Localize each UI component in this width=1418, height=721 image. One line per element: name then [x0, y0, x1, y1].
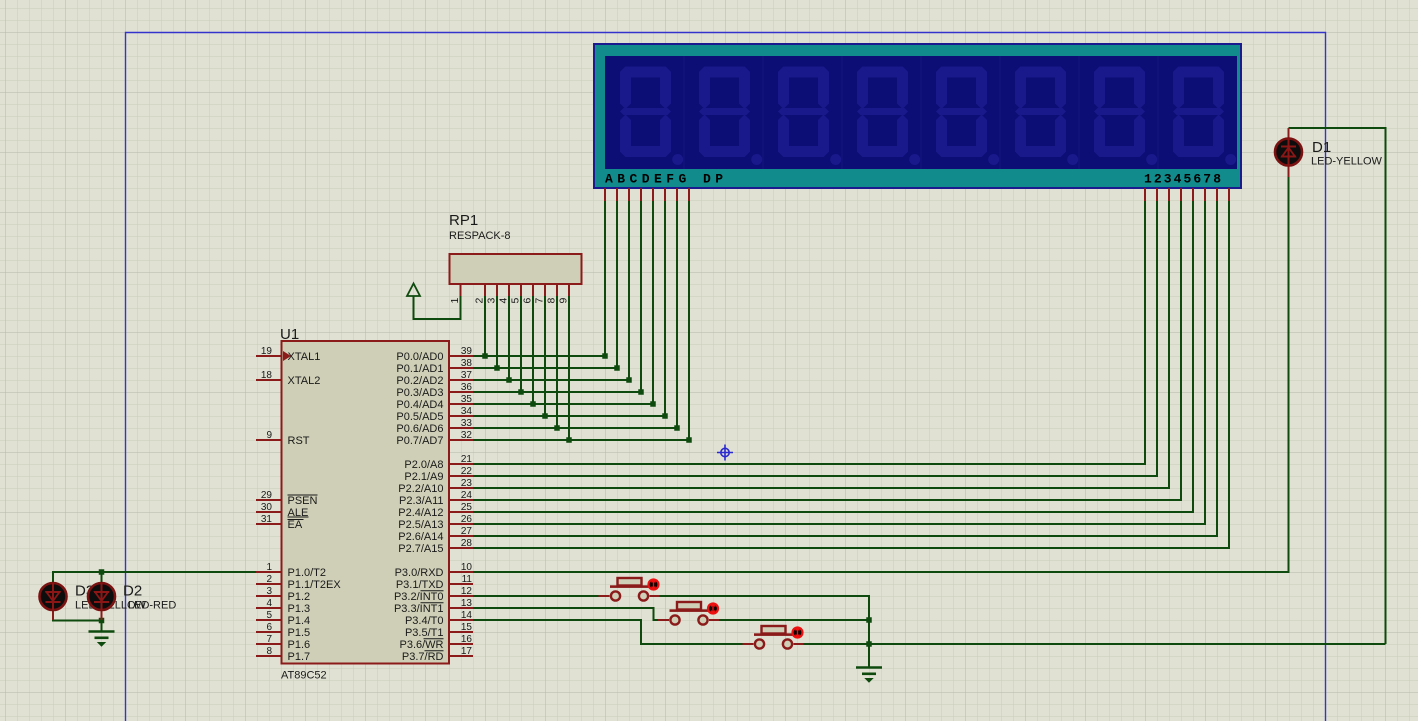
display digit pin 5 [1192, 188, 1194, 201]
junction P0.1/display [614, 365, 620, 371]
wire RESPACK pin1 to VCC arrow [414, 296, 461, 319]
U1 pin 38 (P0.1/AD1) [449, 367, 473, 369]
junction D2 cathode [99, 618, 105, 624]
svg-text:14: 14 [461, 610, 473, 621]
U1 pin 4 (P1.3) [256, 607, 281, 609]
svg-text:P1.2: P1.2 [288, 591, 311, 603]
svg-text:32: 32 [461, 430, 473, 441]
display segment pin C [628, 188, 630, 201]
svg-text:P3.2/INT0: P3.2/INT0 [394, 591, 444, 603]
digit separator [920, 56, 922, 169]
junction P0.7/RP1 [566, 437, 572, 443]
svg-text:U1: U1 [280, 326, 299, 343]
svg-text:P0.2/AD2: P0.2/AD2 [396, 375, 443, 387]
LED D2 [101, 582, 103, 620]
wire D2 D3 cathode bus [53, 611, 102, 632]
U1 pin 21 (P2.0/A8) [449, 463, 473, 465]
U1 pin 18 (XTAL2) [256, 379, 281, 381]
wire P2.7 to digit 8 [473, 201, 1229, 548]
wire display segment E vertical [652, 201, 654, 404]
U1 pin 31 (EA) [256, 523, 281, 525]
svg-text:RP1: RP1 [449, 212, 478, 229]
resistor pack RP1 body [450, 254, 582, 284]
U1 pin 12 (P3.2/INT0) [449, 595, 473, 597]
wire P0.4 row [473, 403, 653, 405]
svg-text:29: 29 [261, 490, 273, 501]
svg-text:P3.1/TXD: P3.1/TXD [396, 579, 444, 591]
RP1 pin 9 stub [568, 284, 570, 296]
U1 pin 33 (P0.6/AD6) [449, 427, 473, 429]
svg-text:P2.7/A15: P2.7/A15 [398, 543, 443, 555]
svg-text:23: 23 [461, 478, 473, 489]
digit separator [1078, 56, 1080, 169]
wire D2 cathode stub [101, 611, 103, 621]
U1 pin 35 (P0.4/AD4) [449, 403, 473, 405]
digit separator [999, 56, 1001, 169]
svg-text:P2.5/A13: P2.5/A13 [398, 519, 443, 531]
push button SW2 [658, 602, 719, 625]
wire button2 to ground column [719, 619, 869, 621]
svg-text:12345678: 12345678 [1144, 172, 1221, 187]
wire P3.0/RXD to D1 cathode [473, 177, 1289, 572]
svg-text:5: 5 [266, 610, 272, 621]
wire D1 anode to right rail [1289, 128, 1386, 644]
display digit 6 [1015, 67, 1078, 166]
svg-text:P3.4/T0: P3.4/T0 [405, 615, 444, 627]
svg-text:28: 28 [461, 538, 473, 549]
svg-text:RST: RST [288, 435, 310, 447]
wire RESPACK pin 6 vertical [532, 296, 534, 404]
junction P0.5/display [662, 413, 668, 419]
junction P0.4/display [650, 401, 656, 407]
wire display segment H vertical [688, 201, 690, 440]
svg-text:P2.6/A14: P2.6/A14 [398, 531, 443, 543]
op-amp U1 body (AT89C52 MCU) [282, 341, 450, 664]
wire RESPACK pin 2 vertical [484, 296, 486, 356]
svg-text:1: 1 [449, 298, 461, 304]
svg-text:8: 8 [546, 298, 558, 304]
U1 pin 17 (P3.7/RD) [449, 655, 473, 657]
wire ground rail y644 [803, 643, 1386, 645]
display digit pin 2 [1156, 188, 1158, 201]
wire P2.3 to digit 4 [473, 201, 1181, 500]
svg-text:2: 2 [474, 298, 486, 304]
svg-text:P3.6/WR: P3.6/WR [399, 639, 443, 651]
svg-text:P1.1/T2EX: P1.1/T2EX [288, 579, 342, 591]
display digit pin 6 [1204, 188, 1206, 201]
junction P0.5/RP1 [542, 413, 548, 419]
wire P2.2 to digit 3 [473, 201, 1169, 488]
wire P2.1 to digit 2 [473, 201, 1157, 476]
svg-text:P1.0/T2: P1.0/T2 [288, 567, 327, 579]
U1 pin 14 (P3.4/T0) [449, 619, 473, 621]
RP1 pin 5 stub [520, 284, 522, 296]
display digit 8 [1173, 67, 1236, 166]
U1 pin 8 (P1.7) [256, 655, 281, 657]
wire P3.2/INT0 to button1 [473, 595, 599, 597]
junction P0.2/display [626, 377, 632, 383]
svg-text:P2.1/A9: P2.1/A9 [404, 471, 443, 483]
U1 pin 29 (PSEN) [256, 499, 281, 501]
U1 pin 6 (P1.5) [256, 631, 281, 633]
junction button2/ground column [866, 617, 872, 623]
U1 pin 37 (P0.2/AD2) [449, 379, 473, 381]
svg-text:27: 27 [461, 526, 473, 537]
U1 pin 9 (RST) [256, 439, 281, 441]
svg-text:PSEN: PSEN [288, 495, 318, 507]
wire display segment F vertical [664, 201, 666, 416]
wire RESPACK pin 3 vertical [496, 296, 498, 368]
svg-text:LED-RED: LED-RED [128, 600, 176, 612]
svg-text:10: 10 [461, 562, 473, 573]
display segment pin D [640, 188, 642, 201]
digit separator [1157, 56, 1159, 169]
wire P0.5 row [473, 415, 665, 417]
svg-text:P0.5/AD5: P0.5/AD5 [396, 411, 443, 423]
display digit 7 [1094, 67, 1157, 166]
svg-text:19: 19 [261, 346, 273, 357]
svg-text:4: 4 [498, 298, 510, 304]
U1 pin 36 (P0.3/AD3) [449, 391, 473, 393]
display digit 3 [778, 67, 841, 166]
svg-text:24: 24 [461, 490, 473, 501]
svg-text:XTAL2: XTAL2 [288, 375, 321, 387]
junction D2 anode [99, 569, 105, 575]
svg-text:38: 38 [461, 358, 473, 369]
svg-text:11: 11 [462, 574, 473, 585]
svg-text:34: 34 [461, 406, 473, 417]
svg-text:6: 6 [522, 298, 534, 304]
svg-text:1: 1 [266, 562, 272, 573]
wire display segment B vertical [616, 201, 618, 368]
svg-text:16: 16 [461, 634, 473, 645]
svg-text:30: 30 [261, 502, 273, 513]
junction P0.6/display [674, 425, 680, 431]
digit separator [683, 56, 685, 169]
svg-text:36: 36 [461, 382, 473, 393]
U1 pin 25 (P2.4/A12) [449, 511, 473, 513]
U1 pin 39 (P0.0/AD0) [449, 355, 473, 357]
svg-text:17: 17 [461, 646, 473, 657]
U1 pin 26 (P2.5/A13) [449, 523, 473, 525]
wire P0.2 row [473, 379, 629, 381]
svg-text:3: 3 [266, 586, 272, 597]
display segment pin B [616, 188, 618, 201]
svg-text:EA: EA [288, 519, 303, 531]
svg-text:P1.3: P1.3 [288, 603, 311, 615]
wire P3.4/T0 to button3 [473, 620, 743, 644]
svg-text:P0.7/AD7: P0.7/AD7 [396, 435, 443, 447]
svg-text:6: 6 [266, 622, 272, 633]
display segment pin H [688, 188, 690, 201]
junction P0.2/RP1 [506, 377, 512, 383]
U1 pin 34 (P0.5/AD5) [449, 415, 473, 417]
U1 pin 27 (P2.6/A14) [449, 535, 473, 537]
display digit 1 [620, 67, 683, 166]
LED D1 [1288, 128, 1290, 177]
svg-text:XTAL1: XTAL1 [288, 351, 321, 363]
wire display segment D vertical [640, 201, 642, 392]
svg-text:P3.3/INT1: P3.3/INT1 [394, 603, 444, 615]
svg-text:P0.4/AD4: P0.4/AD4 [396, 399, 443, 411]
power VCC arrow [407, 284, 420, 297]
U1 pin 13 (P3.3/INT1) [449, 607, 473, 609]
display segment pin E [652, 188, 654, 201]
svg-text:31: 31 [261, 514, 273, 525]
display digit pin 4 [1180, 188, 1182, 201]
wire P0.0 row [473, 355, 605, 357]
svg-text:P1.4: P1.4 [288, 615, 311, 627]
display digit pin 8 [1228, 188, 1230, 201]
svg-text:2: 2 [266, 574, 272, 585]
U1 pin 24 (P2.3/A11) [449, 499, 473, 501]
RP1 pin 6 stub [532, 284, 534, 296]
svg-text:P0.0/AD0: P0.0/AD0 [396, 351, 443, 363]
RP1 pin 4 stub [508, 284, 510, 296]
wire RESPACK pin 4 vertical [508, 296, 510, 380]
push button SW3 [743, 626, 804, 649]
wire display segment A vertical [604, 201, 606, 356]
wire P2.0 to digit 1 [473, 201, 1145, 464]
wire display segment G vertical [676, 201, 678, 428]
U1 XTAL1 clock marker [283, 351, 291, 361]
svg-text:33: 33 [461, 418, 473, 429]
RP1 pin 1 stub [460, 284, 462, 296]
svg-text:12: 12 [461, 586, 473, 597]
svg-text:9: 9 [266, 430, 272, 441]
svg-text:D2: D2 [123, 583, 142, 600]
svg-text:22: 22 [461, 466, 473, 477]
U1 pin 11 (P3.1/TXD) [449, 583, 473, 585]
junction P0.0/display [602, 353, 608, 359]
origin marker [717, 445, 733, 461]
svg-text:37: 37 [461, 370, 473, 381]
RP1 pin 8 stub [556, 284, 558, 296]
U1 pin 23 (P2.2/A10) [449, 487, 473, 489]
display digit pin 7 [1216, 188, 1218, 201]
svg-text:P2.2/A10: P2.2/A10 [398, 483, 443, 495]
svg-text:RESPACK-8: RESPACK-8 [449, 230, 511, 242]
svg-text:P3.5/T1: P3.5/T1 [405, 627, 444, 639]
wire P2.4 to digit 5 [473, 201, 1193, 512]
svg-text:P1.6: P1.6 [288, 639, 311, 651]
RP1 pin 7 stub [544, 284, 546, 296]
svg-text:13: 13 [461, 598, 473, 609]
svg-text:P0.3/AD3: P0.3/AD3 [396, 387, 443, 399]
junction P0.3/display [638, 389, 644, 395]
svg-text:35: 35 [461, 394, 473, 405]
U1 pin 30 (ALE) [256, 511, 281, 513]
display digit pin 1 [1144, 188, 1146, 201]
svg-text:15: 15 [461, 622, 473, 633]
wire P0.7 row [473, 439, 689, 441]
LED D3 [52, 582, 54, 620]
wire P2.5 to digit 6 [473, 201, 1205, 524]
display digit 2 [699, 67, 762, 166]
junction P0.1/RP1 [494, 365, 500, 371]
svg-text:LED-YELLOW: LED-YELLOW [1311, 156, 1383, 168]
junction P0.3/RP1 [518, 389, 524, 395]
display digit 5 [936, 67, 999, 166]
digit separator [841, 56, 843, 169]
wire P2.6 to digit 7 [473, 201, 1217, 536]
svg-text:5: 5 [510, 298, 522, 304]
U1 pin 19 (XTAL1) [256, 355, 281, 357]
display digit pin 3 [1168, 188, 1170, 201]
U1 pin 28 (P2.7/A15) [449, 547, 473, 549]
wire P0.6 row [473, 427, 677, 429]
junction ground rail / button column [866, 641, 872, 647]
svg-text:P2.4/A12: P2.4/A12 [398, 507, 443, 519]
wire RESPACK pin 8 vertical [556, 296, 558, 428]
wire button1 to ground column [660, 596, 870, 667]
svg-text:7: 7 [266, 634, 272, 645]
ground (right, buttons) [856, 668, 882, 683]
U1 pin 15 (P3.5/T1) [449, 631, 473, 633]
junction P0.7/display [686, 437, 692, 443]
U1 pin 5 (P1.4) [256, 619, 281, 621]
svg-text:D1: D1 [1312, 139, 1331, 156]
display digit 4 [857, 67, 920, 166]
wire P1.0/T2 to D2 D3 anodes [53, 572, 256, 582]
digit separator [762, 56, 764, 169]
svg-text:21: 21 [461, 454, 473, 465]
svg-text:P1.5: P1.5 [288, 627, 311, 639]
U1 pin 22 (P2.1/A9) [449, 475, 473, 477]
U1 pin 10 (P3.0/RXD) [449, 571, 473, 573]
U1 pin 1 (P1.0/T2) [256, 571, 281, 573]
svg-text:7: 7 [534, 298, 546, 304]
svg-text:25: 25 [461, 502, 473, 513]
wire D3 anode stub [101, 572, 103, 582]
wire display segment C vertical [628, 201, 630, 380]
svg-text:P3.0/RXD: P3.0/RXD [395, 567, 444, 579]
junction P0.0/RP1 [482, 353, 488, 359]
svg-text:4: 4 [266, 598, 272, 609]
svg-text:P3.7/RD: P3.7/RD [402, 651, 444, 663]
RP1 pin 3 stub [496, 284, 498, 296]
wire RESPACK pin 5 vertical [520, 296, 522, 392]
wire P3.3/INT1 to button2 [473, 608, 662, 620]
U1 pin 3 (P1.2) [256, 595, 281, 597]
7-segment display bezel [594, 44, 1241, 188]
svg-text:3: 3 [486, 298, 498, 304]
RP1 pin 2 stub [484, 284, 486, 296]
U1 pin 7 (P1.6) [256, 643, 281, 645]
display segment pin G [676, 188, 678, 201]
junction P0.4/RP1 [530, 401, 536, 407]
junction P0.6/RP1 [554, 425, 560, 431]
U1 pin 16 (P3.6/WR) [449, 643, 473, 645]
display segment pin F [664, 188, 666, 201]
ground (left, LEDs) [89, 632, 115, 647]
svg-text:P2.3/A11: P2.3/A11 [399, 495, 443, 507]
wire P0.1 row [473, 367, 617, 369]
svg-text:9: 9 [558, 298, 570, 304]
svg-text:AT89C52: AT89C52 [281, 670, 327, 682]
push button SW1 [599, 578, 660, 601]
7-segment display panel [605, 56, 1237, 169]
wire RESPACK pin 9 vertical [568, 296, 570, 440]
svg-text:P0.6/AD6: P0.6/AD6 [396, 423, 443, 435]
svg-text:P1.7: P1.7 [288, 651, 311, 663]
U1 pin 32 (P0.7/AD7) [449, 439, 473, 441]
svg-text:P0.1/AD1: P0.1/AD1 [396, 363, 443, 375]
display segment pin A [604, 188, 606, 201]
U1 pin 2 (P1.1/T2EX) [256, 583, 281, 585]
wire RESPACK pin 7 vertical [544, 296, 546, 416]
svg-text:39: 39 [461, 346, 473, 357]
wire P0.3 row [473, 391, 641, 393]
svg-text:P2.0/A8: P2.0/A8 [404, 459, 443, 471]
svg-text:18: 18 [261, 370, 273, 381]
svg-text:26: 26 [461, 514, 473, 525]
svg-text:8: 8 [266, 646, 272, 657]
